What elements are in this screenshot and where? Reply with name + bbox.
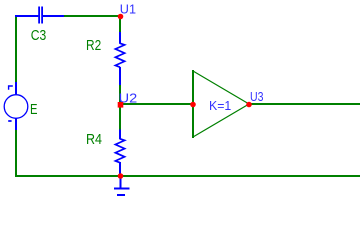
capacitor C3	[15, 7, 65, 24]
node buffer input	[190, 102, 196, 108]
ground	[114, 176, 130, 195]
svg-text:K=1: K=1	[209, 98, 231, 113]
svg-text:R4: R4	[86, 131, 102, 148]
op-amp buffer U (K=1)	[193, 70, 249, 138]
svg-text:E: E	[30, 101, 38, 118]
svg-text:C3: C3	[31, 27, 47, 44]
wire R2 to U2	[119, 85, 121, 104]
wire U2 down	[119, 106, 121, 131]
wire left vertical (top corner down to source)	[15, 15, 17, 83]
resistor R2	[115, 32, 124, 86]
svg-text:R2: R2	[86, 37, 101, 54]
wire output	[249, 103, 360, 105]
wire bottom horizontal	[15, 175, 360, 177]
svg-text:U3: U3	[250, 89, 264, 104]
node U3	[246, 102, 252, 108]
wire U2 to buffer input	[120, 103, 193, 105]
resistor R4	[115, 130, 124, 177]
node U1	[118, 14, 124, 20]
wire source to bottom	[15, 130, 17, 177]
node U2	[118, 102, 124, 108]
wire top horizontal to U1	[64, 15, 121, 17]
voltage source E	[4, 82, 28, 131]
wire U1 down	[119, 16, 121, 33]
node ground junction	[118, 173, 124, 179]
